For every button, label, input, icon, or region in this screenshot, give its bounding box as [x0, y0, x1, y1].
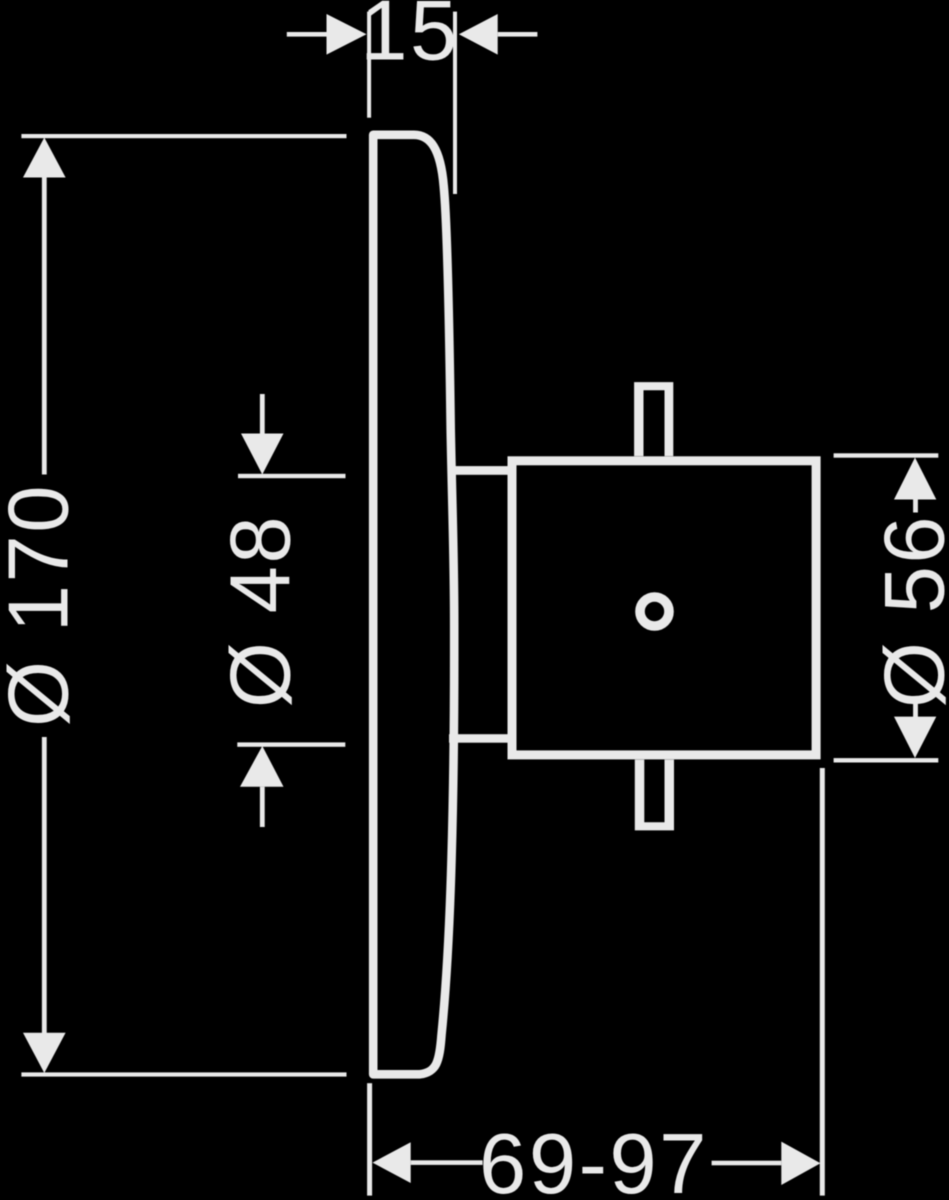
- dimension 69-97: right dimension line: [712, 1161, 782, 1166]
- dimension Ø48: bottom tick line: [237, 742, 345, 746]
- dimension Ø56: upper stem: [913, 500, 918, 513]
- dimension Ø48: up arrowhead: [240, 746, 284, 787]
- center screw circle: [640, 597, 669, 626]
- dimension 69-97: left dimension line: [411, 1160, 483, 1165]
- dimension Ø56: up arrowhead: [894, 458, 936, 500]
- valve body box: [512, 461, 816, 755]
- dimension 15: left lead line: [287, 32, 327, 37]
- dimension 15: right arrowhead: [459, 14, 498, 55]
- escutcheon plate outline: [373, 135, 454, 1075]
- dimension Ø48: upper dimension line: [260, 394, 265, 434]
- dimension Ø170: upper dimension line: [42, 178, 47, 475]
- dimension Ø170: bottom extension line: [21, 1072, 346, 1076]
- dimension Ø170: up arrowhead: [23, 138, 66, 178]
- dimension Ø56: lower stem: [913, 704, 918, 717]
- dimension Ø48: top tick line: [238, 474, 346, 478]
- dimension Ø56: bottom extension line: [834, 758, 939, 762]
- dimension 15: right extension line: [453, 12, 457, 194]
- sleeve top line: [449, 466, 510, 475]
- svg-text:69-97: 69-97: [479, 1117, 709, 1200]
- dimension Ø170: lower dimension line: [42, 737, 47, 1033]
- svg-text:Ø 56: Ø 56: [868, 514, 949, 708]
- dimension Ø48: down arrowhead: [241, 434, 284, 475]
- dimension 15: left extension line: [367, 12, 371, 118]
- dimension 69-97: left extension line: [367, 1083, 372, 1195]
- dimension Ø56: top extension line: [834, 453, 939, 457]
- dimension Ø170: down arrowhead: [23, 1033, 66, 1073]
- dimension 69-97: right extension line: [820, 768, 825, 1196]
- dimension 69-97: left arrowhead: [373, 1142, 411, 1183]
- dimension Ø56: down arrowhead: [894, 717, 936, 758]
- valve body bottom tab: [635, 760, 674, 831]
- dimension 15: right lead line: [498, 32, 538, 37]
- svg-text:Ø 170: Ø 170: [0, 483, 87, 727]
- svg-text:Ø 48: Ø 48: [214, 514, 309, 708]
- sleeve bottom line: [449, 734, 510, 743]
- dimension Ø48: lower dimension line: [260, 787, 265, 827]
- dimension 15: left arrowhead: [327, 14, 367, 55]
- svg-text:15: 15: [360, 0, 460, 79]
- dimension Ø170: top extension line: [21, 134, 346, 138]
- dimension 69-97: right arrowhead: [781, 1142, 820, 1185]
- valve body top tab: [634, 382, 673, 456]
